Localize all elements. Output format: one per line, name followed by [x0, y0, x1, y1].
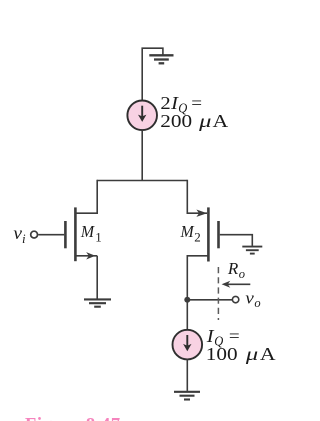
svg-text:2: 2 — [194, 229, 201, 244]
svg-text:=: = — [229, 326, 240, 346]
ground (M2 gate) — [242, 247, 262, 254]
svg-text:A: A — [213, 111, 229, 131]
wire: M1 source lead with arrow — [76, 255, 97, 257]
transistor M2 gate bar — [217, 221, 220, 248]
node: output junction dot — [184, 297, 190, 303]
label vo — [245, 288, 260, 310]
wire: rail left drop to M1 drain — [76, 180, 97, 214]
wire: top rail — [97, 180, 187, 182]
svg-text:2: 2 — [160, 93, 170, 113]
current source 2IQ — [127, 101, 157, 131]
svg-text:R: R — [227, 259, 239, 278]
wire: M2 source lead down to output node — [187, 256, 208, 300]
svg-text:o: o — [239, 267, 245, 281]
svg-text:Figure 8.47: Figure 8.47 — [25, 415, 121, 421]
transistor M1 gate bar — [64, 221, 67, 248]
wire: junction down to IQ source — [186, 300, 188, 330]
label 2IQ = 200 uA — [160, 93, 228, 131]
svg-text:200: 200 — [160, 111, 192, 131]
svg-text:o: o — [254, 296, 260, 310]
ground (bottom) — [174, 392, 200, 400]
svg-text:A: A — [260, 344, 276, 364]
wire: junction to vo terminal — [187, 299, 232, 301]
svg-text:100: 100 — [206, 344, 238, 364]
svg-text:v: v — [13, 223, 22, 243]
wire: vi to M1 gate — [38, 234, 64, 236]
wire: rail right drop to M2 drain with arrow — [187, 180, 207, 214]
node: Ro measurement dashed line — [217, 267, 219, 320]
caption sliver: Figure (magenta, clipped at bottom) — [25, 415, 121, 421]
wire: IQ source to bottom ground — [186, 359, 188, 391]
ground (top) — [149, 55, 173, 63]
wire: top supply vertical and bend to ground — [142, 48, 163, 100]
label M2 — [180, 222, 201, 244]
label IQ = 100 uA — [206, 326, 276, 364]
label vi — [13, 223, 26, 246]
svg-text:=: = — [191, 93, 202, 113]
svg-text:M: M — [180, 222, 195, 241]
wire: M1 source to ground — [96, 256, 98, 299]
wire: Ro arrow pointing left — [227, 283, 251, 285]
label M1 — [80, 222, 102, 244]
label Ro — [227, 259, 245, 281]
svg-text:μ: μ — [245, 344, 259, 364]
svg-text:i: i — [22, 231, 26, 246]
transistor M1 channel — [74, 207, 77, 261]
svg-text:μ: μ — [198, 111, 212, 131]
svg-text:v: v — [245, 288, 254, 307]
transistor M2 channel — [207, 207, 210, 261]
current source IQ — [173, 330, 203, 360]
svg-text:1: 1 — [95, 229, 102, 244]
ground (M1 source) — [84, 299, 111, 306]
terminal vi — [31, 231, 38, 238]
svg-text:M: M — [80, 222, 95, 241]
terminal vo — [232, 296, 238, 302]
wire: M2 gate to right ground — [220, 235, 253, 246]
wire: current source to rail — [141, 130, 143, 180]
